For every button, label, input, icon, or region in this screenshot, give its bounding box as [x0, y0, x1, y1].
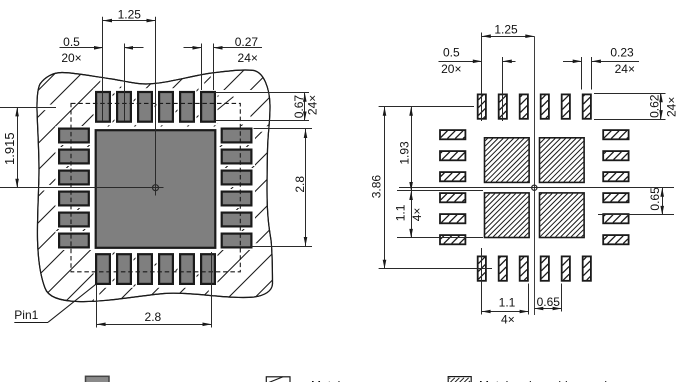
- svg-text:24×: 24×: [238, 51, 258, 65]
- svg-text:1.25: 1.25: [118, 8, 142, 22]
- svg-text:Metal: Metal: [311, 378, 340, 382]
- svg-text:1.93: 1.93: [397, 141, 411, 165]
- svg-text:Pin1: Pin1: [14, 308, 38, 322]
- svg-text:1.1: 1.1: [393, 204, 407, 221]
- svg-text:1.25: 1.25: [494, 23, 518, 37]
- svg-text:4×: 4×: [501, 313, 515, 327]
- svg-text:1.915: 1.915: [2, 132, 17, 165]
- svg-text:0.67: 0.67: [292, 95, 306, 119]
- svg-text:2.8: 2.8: [293, 176, 307, 193]
- svg-text:0.65: 0.65: [648, 187, 662, 211]
- svg-text:1.1: 1.1: [499, 296, 516, 310]
- svg-text:24×: 24×: [665, 97, 679, 117]
- svg-text:4×: 4×: [410, 208, 424, 222]
- svg-text:3.86: 3.86: [370, 175, 384, 199]
- svg-text:0.5: 0.5: [443, 46, 460, 60]
- svg-text:0.65: 0.65: [537, 295, 561, 309]
- svg-text:20×: 20×: [61, 51, 81, 65]
- svg-text:20×: 20×: [441, 62, 461, 76]
- svg-text:0.23: 0.23: [610, 46, 634, 60]
- svg-text:0.5: 0.5: [63, 35, 80, 49]
- svg-text:0.27: 0.27: [235, 35, 259, 49]
- svg-text:0.62: 0.62: [648, 94, 662, 118]
- svg-text:Metal under solder mask: Metal under solder mask: [479, 378, 611, 382]
- svg-text:24×: 24×: [615, 62, 635, 76]
- svg-text:24×: 24×: [306, 95, 320, 115]
- svg-text:2.8: 2.8: [145, 310, 162, 324]
